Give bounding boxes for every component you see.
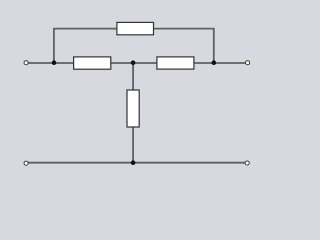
wire: input terminal to node A (mid rail left segment)	[28, 62, 54, 64]
resistor R1 (left series)	[74, 57, 111, 69]
wire: bridge riser right (node C up)	[213, 29, 215, 63]
resistor R3 (bridge resistor, top)	[117, 22, 154, 34]
node B (junction dot, mid rail center)	[131, 60, 136, 65]
node D (junction dot, bottom rail center)	[131, 160, 136, 165]
resistor R4 (shunt, vertical)	[127, 90, 139, 127]
wire: node B to node C through R2 (mid rail center-right)	[133, 62, 214, 64]
wire: bridge riser left (node A up)	[53, 29, 55, 63]
terminal: common lower-left (open circle)	[24, 161, 29, 166]
wire: node A to node B through R1 (mid rail center-left)	[54, 62, 133, 64]
terminal: input (open circle, mid left)	[24, 60, 29, 65]
wire: shunt branch node B down through R4 to node D	[132, 63, 134, 163]
wire: bridge top rail through R3	[53, 28, 214, 30]
resistor R2 (right series)	[157, 57, 194, 69]
wire: node C to output terminal (mid rail right segment)	[214, 62, 246, 64]
wire: bottom rail right segment	[133, 162, 245, 164]
wire: bottom rail left segment	[28, 162, 133, 164]
terminal: output (open circle, mid right)	[245, 60, 250, 65]
node A (junction dot, left bridge tap)	[52, 60, 57, 65]
node C (junction dot, right bridge tap)	[212, 60, 217, 65]
terminal: common lower-right (open circle)	[245, 161, 250, 166]
